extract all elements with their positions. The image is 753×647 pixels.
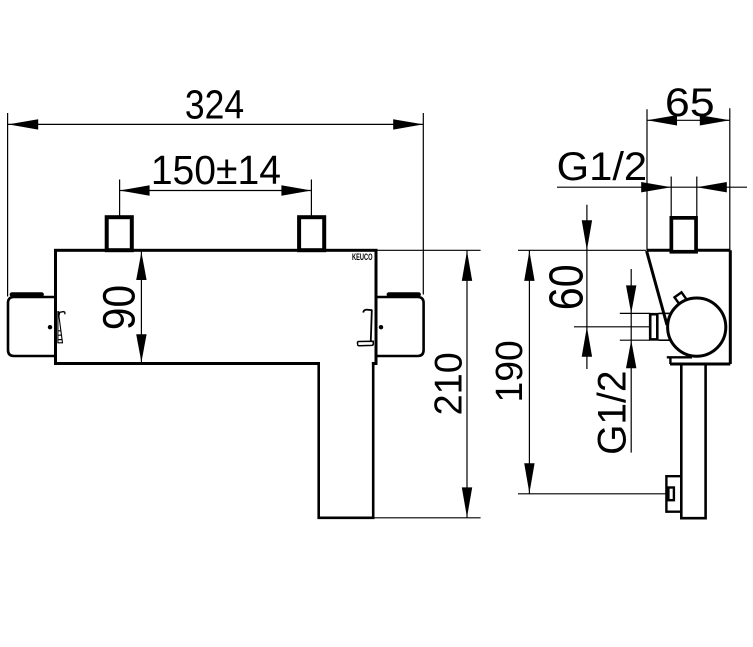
svg-text:190: 190 [488, 340, 530, 402]
svg-text:150±14: 150±14 [151, 148, 281, 193]
svg-text:324: 324 [185, 82, 244, 128]
svg-text:G1/2: G1/2 [590, 371, 635, 455]
svg-text:KEUCO: KEUCO [352, 252, 373, 262]
svg-text:60: 60 [541, 264, 594, 310]
svg-text:G1/2: G1/2 [557, 144, 648, 189]
svg-text:65: 65 [665, 80, 715, 124]
svg-text:90: 90 [95, 285, 145, 330]
svg-text:210: 210 [427, 352, 471, 415]
